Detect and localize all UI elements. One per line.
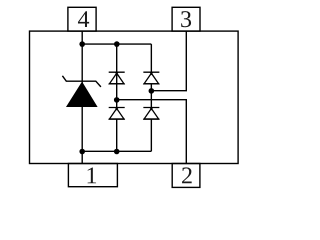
wire D2 through node B to D4: [150, 84, 152, 108]
junction node A middle rail: [114, 97, 120, 103]
TVS diode Z1: [62, 76, 101, 107]
pin 2 box: [172, 164, 200, 188]
pin label 2: [182, 167, 192, 183]
pin label 4: [78, 11, 89, 27]
pin 4 box: [68, 7, 96, 31]
junction top rail / D1: [114, 41, 120, 47]
wire TVS cathode: [81, 44, 83, 84]
wire top rail: [82, 43, 151, 45]
wire pin3 to node B: [151, 31, 186, 91]
wire middle rail node A to pin2: [117, 100, 187, 164]
wire D3 to bottom rail: [116, 119, 118, 151]
junction pin4/top rail: [79, 41, 85, 47]
junction bottom rail / TVS / pin1: [79, 149, 85, 155]
junction node B pin3 tap: [149, 88, 155, 94]
junction bottom rail / D3: [114, 149, 120, 155]
wire TVS anode to bottom rail: [81, 106, 83, 151]
wire bottom rail to pin1: [81, 151, 83, 163]
pin 1 box: [68, 164, 117, 187]
diode D4 (lower right): [143, 108, 159, 120]
pin 3 box: [172, 7, 200, 31]
wire top rail corner down to D2: [150, 44, 152, 72]
diode D1 (upper left): [109, 72, 125, 84]
wire D1 through to node A: [116, 72, 118, 107]
diode D2 (upper right): [143, 72, 159, 84]
diode D3 (lower left): [109, 108, 125, 120]
pin label 1: [88, 167, 96, 183]
wire bottom rail: [82, 150, 151, 152]
pin label 3: [181, 11, 191, 27]
wire pin4 to top rail: [81, 31, 83, 44]
wire D4 to bottom rail: [150, 119, 152, 151]
package body outline: [30, 31, 239, 163]
wire top rail to D1: [116, 44, 118, 72]
